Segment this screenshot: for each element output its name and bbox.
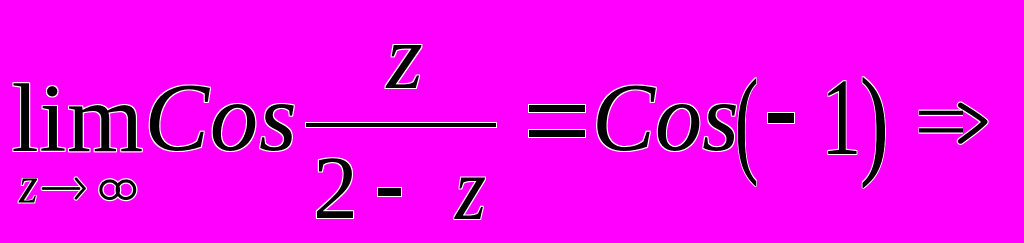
subscript arrow right bbox=[41, 175, 89, 201]
fraction bar bbox=[306, 123, 496, 127]
subscript variable z bbox=[19, 159, 38, 211]
denominator minus sign bbox=[378, 188, 401, 196]
minus sign inside parentheses bbox=[768, 113, 794, 123]
fraction numerator z bbox=[387, 11, 423, 104]
closing parenthesis bbox=[860, 60, 889, 182]
limit operator "lim" bbox=[12, 70, 144, 168]
opening parenthesis bbox=[735, 62, 758, 180]
function name Cos (first) bbox=[144, 69, 297, 166]
denominator digit 2 bbox=[313, 144, 358, 234]
function name Cos (second) bbox=[592, 69, 739, 166]
denominator variable z bbox=[455, 145, 486, 235]
subscript infinity bbox=[98, 177, 140, 203]
implies double arrow bbox=[915, 100, 991, 146]
digit 1 bbox=[821, 62, 861, 172]
equals sign bbox=[529, 105, 585, 112]
